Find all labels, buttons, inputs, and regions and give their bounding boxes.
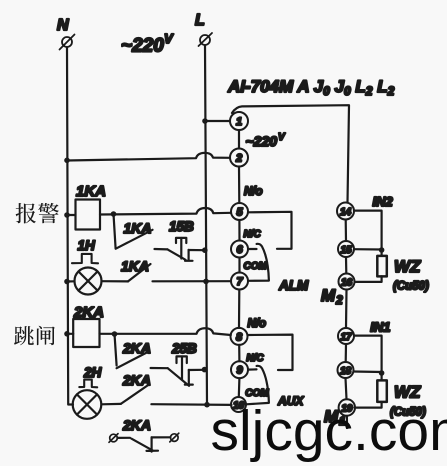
svg-text:V: V [278, 132, 286, 143]
contact 2KA arm (spare) [131, 439, 153, 451]
wire contact to 25B [151, 367, 168, 369]
wire contact to pin 10 [151, 403, 231, 406]
svg-text:ALM: ALM [278, 278, 309, 293]
label M2 [321, 286, 343, 307]
wire alarm relay N/O bracket from pin 5 [248, 212, 292, 249]
svg-text:N/o: N/o [248, 318, 267, 330]
junction 15B to L bus [202, 247, 208, 253]
svg-text:N/o: N/o [244, 186, 263, 198]
wire branch down to 1KA contact [114, 214, 116, 249]
wire pin9-pin10 [238, 378, 241, 397]
terminal stud left [109, 434, 118, 443]
button 25B (NC test button) [168, 356, 205, 386]
svg-text:IN2: IN2 [373, 194, 394, 209]
svg-text:~220: ~220 [246, 133, 278, 149]
wire pin14-pin15 [345, 220, 347, 242]
pin 17 [338, 328, 354, 344]
svg-text:1: 1 [236, 116, 242, 128]
junction coil/contact branch [111, 211, 117, 217]
pin 14 [337, 203, 354, 220]
wire N to 1KA coil [67, 214, 76, 216]
pin 15 [338, 241, 354, 257]
wire pin 18 to RTD [354, 370, 382, 373]
wire pin15-pin16 [345, 257, 347, 274]
wire stud to contact [117, 437, 130, 439]
svg-text:WZ: WZ [394, 257, 421, 276]
svg-text:9: 9 [236, 365, 243, 377]
svg-text:8: 8 [236, 331, 243, 343]
wire pin 7 to relay arm (ALM contact) [249, 244, 269, 281]
contact fixed post [147, 437, 159, 451]
wire pin 6 stub [248, 248, 257, 250]
svg-text:IN1: IN1 [370, 320, 390, 335]
wire pin16-pin17 [345, 290, 348, 329]
svg-text:COM: COM [244, 261, 268, 272]
pin 16 [339, 274, 355, 290]
wire N to pin 2 (hops over L bus) [67, 153, 230, 161]
svg-text:N/C: N/C [246, 353, 264, 364]
contact 1KA arm (lamp row) [128, 264, 151, 281]
relay coil 2KA [73, 319, 99, 347]
svg-text:15: 15 [340, 245, 352, 256]
svg-text:6: 6 [236, 244, 243, 256]
pin 8 [231, 328, 248, 345]
wire RTD1 to pin 16 [355, 276, 382, 282]
svg-text:2: 2 [335, 293, 343, 307]
wire RTD2 to pin 19 [355, 402, 382, 408]
button 15B (NC test button) [168, 238, 205, 261]
junction 25B to L bus [202, 367, 208, 373]
contact 2KA arm (lamp row) [121, 385, 149, 404]
lamp 2H pulse mark [79, 380, 97, 388]
svg-text:V: V [164, 31, 174, 46]
lamp 1H [75, 268, 102, 295]
pin 5 [231, 203, 248, 220]
svg-text:7: 7 [236, 276, 243, 288]
label ~220V at pins 1-2 [246, 132, 287, 149]
wire contact to pin 7 [153, 280, 232, 282]
wire branch down to 2KA contact [115, 334, 117, 366]
pin 18 [338, 362, 354, 378]
svg-text:L: L [195, 12, 205, 29]
junction RTD2 [379, 370, 385, 376]
wire pin 9 stub [248, 368, 257, 370]
wire aux relay N/O bracket from pin 8 [248, 335, 293, 370]
wire L bus vertical [205, 46, 207, 406]
junction lamp row to L bus [204, 402, 210, 408]
wire pin17-pin18 [345, 344, 347, 362]
pin 9 [231, 361, 248, 378]
pin 7 [231, 273, 248, 290]
lamp 1H pulse mark [72, 254, 98, 263]
resistor WZ1 (RTD Cu50) [377, 256, 387, 277]
junction lamp row to L bus [203, 279, 209, 285]
wire pin7-pin8 [238, 290, 241, 328]
pin 19 [339, 399, 355, 415]
wire pin5-pin6 [238, 220, 240, 241]
wire 1KA coil to pin 5 row (hops over L bus) [100, 208, 231, 215]
svg-text:M: M [321, 286, 336, 305]
contact 2KA arm [117, 352, 149, 369]
junction coil/contact branch [112, 331, 118, 337]
svg-text:16: 16 [341, 278, 353, 289]
pin 6 [231, 241, 248, 258]
wire instrument outline top [232, 105, 349, 202]
wire L to pin 1 [205, 120, 230, 122]
wire N bus vertical [67, 48, 73, 405]
instrument U1 AI-704M label [227, 77, 395, 98]
relay coil 1KA [76, 200, 101, 230]
wire lamp to contact [102, 403, 121, 406]
wire pin 10 to relay arm (AUX contact) [246, 366, 269, 404]
label M1 [324, 407, 346, 428]
label 跳闸 (trip) [14, 326, 55, 346]
svg-text:1KA: 1KA [121, 258, 149, 274]
wire post to stud right [152, 436, 171, 438]
junction RTD1 [379, 247, 385, 253]
contact 1KA arm [116, 230, 153, 249]
node L (line terminal) [195, 12, 212, 46]
svg-text:2H: 2H [83, 365, 102, 380]
pin 2 [230, 149, 248, 167]
svg-text:~220: ~220 [121, 36, 164, 57]
wire N to 2KA coil [67, 333, 73, 335]
svg-text:1KA: 1KA [76, 183, 106, 200]
wire N to lamp 1H [67, 280, 75, 282]
lamp 2H [73, 390, 102, 419]
svg-text:2KA: 2KA [122, 417, 151, 433]
svg-text:N: N [57, 17, 69, 34]
svg-text:25B: 25B [171, 341, 197, 356]
wire pin8-pin9 [238, 345, 240, 361]
wire pin 15 to RTD [354, 248, 382, 251]
svg-text:1H: 1H [78, 238, 96, 253]
wire pin6-pin7 [238, 258, 240, 273]
svg-text:14: 14 [340, 207, 352, 218]
wire lamp to contact [102, 280, 129, 282]
wire pin 17 to RTD junction [354, 336, 382, 381]
svg-text:18: 18 [340, 366, 352, 377]
wire contact to 15B [155, 248, 168, 251]
svg-text:sljcgc.com: sljcgc.com [211, 399, 447, 463]
svg-text:15B: 15B [169, 219, 194, 234]
wire pin2-pin5 [238, 167, 241, 204]
wire pin 14 to RTD junction [354, 211, 382, 256]
svg-text:(Cu50): (Cu50) [393, 281, 429, 293]
wire pin1-pin2 [238, 130, 240, 149]
pin 1 [230, 112, 248, 130]
svg-text:5: 5 [236, 207, 243, 219]
resistor WZ2 (RTD Cu50) [377, 380, 387, 402]
label 报警 (alarm) [16, 203, 59, 223]
label ~220V supply [121, 31, 174, 57]
wire below pin 19 [346, 416, 348, 428]
svg-text:AI-704M A J0 J0 L2 L2: AI-704M A J0 J0 L2 L2 [227, 77, 395, 98]
svg-text:COM: COM [245, 388, 269, 399]
wire 2KA coil to pin 8 row (hops over L bus) [100, 328, 231, 335]
svg-text:17: 17 [340, 332, 352, 343]
wire pin18-pin19 [346, 378, 347, 399]
pin 10 [231, 397, 246, 412]
node N (neutral terminal) [57, 17, 75, 50]
terminal stud right [170, 433, 179, 442]
svg-text:N/C: N/C [244, 229, 262, 240]
svg-text:2: 2 [235, 153, 242, 165]
